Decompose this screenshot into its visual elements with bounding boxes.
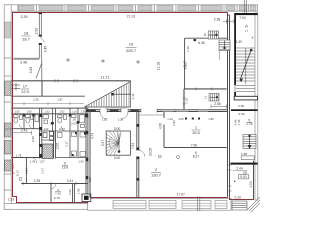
svg-text:6.36: 6.36 — [198, 41, 205, 45]
stairwell A bottom wall (black) — [234, 96, 257, 100]
svg-text:1.06: 1.06 — [68, 189, 72, 195]
cluster wall under toilets — [12, 128, 40, 130]
svg-text:6.17: 6.17 — [15, 170, 19, 176]
cluster right boundary wall (double) — [86, 108, 88, 197]
door blobs above room 1 — [185, 118, 200, 120]
svg-text:8: 8 — [204, 33, 206, 37]
hall divider wall x=137.5 — [137, 110, 139, 198]
wall below stairwell (black) — [231, 109, 258, 111]
svg-text:1.76: 1.76 — [246, 122, 253, 126]
room 6 label — [193, 151, 200, 159]
svg-text:3.04: 3.04 — [25, 168, 29, 174]
window marks on wall y=89 — [196, 88, 212, 91]
svg-text:1.60: 1.60 — [78, 159, 84, 163]
red outline room 20 — [230, 161, 254, 200]
arrow flight upper — [208, 34, 217, 36]
hall left wall x=90 — [89, 110, 91, 198]
svg-text:1.98: 1.98 — [241, 152, 247, 156]
top outer wall band — [6, 5, 258, 11]
window segments on hall top wall — [163, 110, 209, 112]
svg-text:21.91: 21.91 — [127, 14, 136, 18]
ramp triangle outline — [84, 82, 130, 108]
svg-text:2.38: 2.38 — [214, 18, 221, 22]
long interior wall y=81 — [12, 80, 131, 82]
svg-text:2.26: 2.26 — [118, 118, 124, 122]
landing box — [241, 156, 254, 160]
door gap on wall 18/19 — [39, 37, 42, 44]
pier verticals in bottom band — [198, 197, 200, 212]
svg-text:2.43: 2.43 — [21, 128, 28, 132]
svg-text:8.27: 8.27 — [193, 155, 200, 159]
svg-text:2.44: 2.44 — [236, 166, 242, 170]
circle symbol bottom of room 6 — [177, 156, 180, 159]
svg-text:7.50: 7.50 — [191, 143, 198, 147]
svg-text:2.56: 2.56 — [214, 102, 221, 106]
svg-text:4.30: 4.30 — [159, 123, 163, 129]
stairwell A treads — [236, 48, 255, 84]
svg-text:17.87: 17.87 — [176, 192, 185, 196]
dark wall chunks hall top wall — [86, 109, 139, 112]
ramp direction arrow — [112, 93, 132, 95]
arrow flight lower — [224, 41, 226, 50]
svg-text:1.82: 1.82 — [102, 118, 108, 122]
svg-text:1.57: 1.57 — [39, 159, 45, 163]
boxed 9.03 — [239, 175, 249, 179]
stairwell A top wall (black) — [235, 13, 258, 15]
cluster top wall — [12, 107, 88, 109]
right outer wall band — [255, 13, 258, 200]
svg-text:3.07: 3.07 — [71, 122, 77, 126]
svg-text:7.64: 7.64 — [131, 143, 135, 149]
column circles in room 19 — [67, 59, 139, 63]
svg-text:130.7: 130.7 — [151, 173, 162, 178]
top wall window segments — [18, 5, 256, 10]
shaft wall vertical x=39.5 lower — [40, 131, 42, 159]
svg-text:1.39: 1.39 — [236, 40, 242, 44]
svg-text:1.53: 1.53 — [8, 198, 14, 202]
svg-text:2.47: 2.47 — [59, 127, 65, 131]
dim line 2.44 — [233, 169, 247, 171]
window ticks room 20 left wall — [229, 165, 232, 191]
left wall hatched pocket low2 — [5, 141, 11, 155]
svg-text:1.36: 1.36 — [80, 109, 86, 113]
cluster second line — [12, 113, 88, 115]
svg-text:19.6: 19.6 — [62, 166, 69, 170]
flight near room 1 top — [209, 94, 219, 102]
junction ticks on y=183.5 wall — [23, 182, 76, 186]
svg-text:3.39: 3.39 — [21, 15, 28, 19]
dim line 2.43 — [13, 131, 32, 135]
svg-text:0.93: 0.93 — [172, 120, 176, 126]
black chunks on right boundary wall — [86, 114, 89, 179]
room 18 bottom wall — [14, 57, 40, 59]
winder arrow — [118, 134, 120, 153]
svg-text:4.53: 4.53 — [249, 181, 253, 187]
svg-text:9.03: 9.03 — [240, 175, 246, 179]
svg-text:3.41: 3.41 — [67, 179, 74, 183]
left wall window segment top — [5, 22, 11, 38]
tiny dims above — [30, 159, 84, 163]
svg-text:2.05: 2.05 — [56, 143, 60, 149]
svg-text:19: 19 — [129, 42, 134, 47]
room 6 label 19.6 — [62, 161, 69, 169]
dim line for 2.38 — [223, 19, 236, 24]
room 2 label — [151, 167, 162, 178]
room 17 right wall — [41, 81, 43, 96]
wall above room 20 (black) — [231, 163, 258, 165]
mid flight treads — [243, 135, 256, 149]
small flight lower (red zone) — [219, 40, 230, 51]
second line room2 side — [139, 114, 164, 116]
svg-text:11.18: 11.18 — [157, 62, 161, 70]
small flight upper (red zone) — [208, 31, 218, 39]
svg-text:1.87: 1.87 — [57, 98, 63, 102]
door arc room 3 — [51, 184, 56, 189]
door leaf line — [40, 37, 44, 43]
svg-text:3.17: 3.17 — [41, 168, 45, 174]
svg-text:♥: ♥ — [234, 180, 236, 184]
svg-text:1.00: 1.00 — [26, 109, 32, 113]
svg-text:1.95: 1.95 — [77, 188, 81, 194]
door swing room 18 — [36, 63, 42, 79]
room 1 bottom wall — [164, 147, 227, 149]
circle symbol room 8 — [19, 178, 22, 181]
wall between rooms 18 and 19 — [14, 12, 42, 81]
svg-text:2.90: 2.90 — [238, 112, 244, 116]
corridor small dims — [33, 98, 63, 102]
door arc divider wall — [139, 151, 145, 157]
wall y=183.5 across cluster bottom — [21, 183, 88, 185]
svg-text:3.17: 3.17 — [65, 141, 69, 147]
svg-text:17: 17 — [23, 84, 28, 89]
room 3 label — [54, 188, 61, 200]
svg-text:↓↑: ↓↑ — [245, 28, 249, 33]
room 19 lower-right interior wall vertical — [183, 89, 185, 111]
wall x=72.5 lower — [73, 184, 75, 203]
svg-text:1.05: 1.05 — [30, 159, 36, 163]
dim 2.56 line — [211, 104, 227, 108]
wall x=51 lower — [50, 184, 52, 203]
red boundary right (double) — [227, 13, 229, 198]
chimney ticks above stair block — [244, 0, 246, 13]
black chunks on shaft wall — [39, 114, 42, 158]
winder fan rays — [106, 131, 121, 155]
left wall hatched pocket mid — [5, 81, 11, 96]
svg-text:18: 18 — [24, 31, 29, 36]
left wall hatched pocket low1 — [5, 123, 11, 137]
mid flight arrow — [248, 135, 251, 148]
hall top wall — [86, 110, 228, 112]
left wall hatched pocket low3 — [5, 160, 11, 171]
svg-text:4.59: 4.59 — [88, 177, 92, 183]
svg-text:2.36: 2.36 — [33, 98, 39, 102]
short wall below flight lower — [218, 51, 220, 61]
room 1 label — [192, 126, 199, 136]
exterior steps diagonals — [247, 197, 260, 212]
door marks on wall x=184 — [183, 98, 186, 104]
door blob on wall y=38 — [194, 39, 197, 41]
svg-text:1.10: 1.10 — [185, 98, 189, 104]
upper-right room wall vertical x=184.6 — [184, 38, 186, 89]
cluster wall horizontal y=155 — [12, 157, 42, 159]
svg-text:4.05: 4.05 — [178, 117, 184, 121]
svg-text:3.65: 3.65 — [29, 67, 33, 74]
door gap on room1 left wall — [163, 118, 165, 125]
svg-text:20: 20 — [243, 171, 247, 175]
svg-text:7.94: 7.94 — [239, 16, 245, 20]
toilet fixtures row1 — [14, 115, 85, 128]
door gaps hall top wall — [100, 109, 157, 112]
circle symbol hall — [158, 155, 161, 158]
room 1 left wall — [163, 112, 165, 148]
door arc on y=155 wall — [31, 158, 37, 164]
svg-text:2.97: 2.97 — [101, 140, 105, 146]
svg-text:6.76: 6.76 — [54, 196, 60, 200]
room 17 bottom wall — [12, 95, 85, 97]
upper-right room wall horizontal y=38 — [185, 37, 227, 39]
svg-text:3.00: 3.00 — [114, 127, 121, 131]
bottom outer wall band centre/right part — [88, 199, 231, 211]
svg-text:2.42: 2.42 — [131, 93, 135, 99]
red boundary top + left — [13, 13, 254, 203]
wall x=26.4 rooms 8/9 — [25, 158, 27, 184]
room 16 label — [71, 118, 77, 126]
bottom wall window boxes centre — [113, 201, 227, 209]
svg-text:3.00: 3.00 — [114, 156, 121, 160]
stairwell A landing hatch — [236, 86, 255, 92]
left wall tick lines — [4, 58, 11, 190]
svg-text:4.17: 4.17 — [11, 163, 15, 169]
mid band right rooms walls — [56, 131, 88, 158]
label room 18 — [22, 31, 31, 42]
room 19 lower-right interior wall horizontal — [184, 88, 227, 90]
junction tick at top of wall 18/19 — [39, 13, 42, 15]
black wall chunks on divider — [136, 124, 139, 181]
bottom wall window sashes — [113, 203, 227, 206]
exterior steps below room 20 — [232, 201, 247, 210]
label room 19 — [126, 42, 137, 54]
winder stair square — [106, 131, 130, 155]
label room 17 — [21, 84, 30, 95]
mid band fixtures — [58, 132, 86, 157]
corridor dim line — [13, 102, 84, 106]
cluster wall mid right — [40, 130, 88, 132]
stairwell A left wall (black) — [234, 13, 236, 98]
svg-text:3.45: 3.45 — [44, 46, 48, 53]
door jambs on wall y=81 — [55, 79, 77, 82]
landing hatch band under ramp — [106, 107, 126, 109]
room 8 label 6.17 rotated — [12, 170, 20, 176]
top wall segment dividers — [18, 5, 249, 11]
cluster small texts row1 — [14, 109, 86, 113]
svg-text:203.7: 203.7 — [126, 48, 137, 53]
svg-text:10.28: 10.28 — [149, 148, 153, 156]
door arcs below hall top wall — [100, 112, 128, 119]
svg-text:1.02: 1.02 — [44, 128, 49, 131]
svg-text:1.92: 1.92 — [59, 109, 65, 113]
wall below room 18 continuing to corridor wall — [41, 59, 43, 81]
stairwell A left wall door gap — [234, 85, 235, 92]
svg-text:1.10: 1.10 — [71, 109, 77, 113]
door arcs row1 — [20, 124, 67, 131]
red boundary bottom-left jog — [13, 197, 228, 203]
svg-text:1.52: 1.52 — [44, 109, 50, 113]
svg-text:1.2: 1.2 — [204, 95, 208, 99]
small dims below hall wall — [102, 117, 214, 122]
svg-text:1.78: 1.78 — [16, 154, 22, 158]
room 5 label — [246, 119, 253, 127]
double door marks room 17 left — [12, 83, 20, 91]
svg-text:4.74: 4.74 — [91, 133, 95, 139]
cluster cell dividers row1 — [24, 108, 78, 131]
svg-text:1.05: 1.05 — [14, 109, 20, 113]
arrow flight near room 1 — [210, 96, 218, 98]
svg-text:3.48: 3.48 — [20, 61, 27, 65]
door jamb blobs — [39, 35, 42, 45]
pier block bottom — [82, 194, 91, 202]
svg-text:2.39: 2.39 — [34, 179, 41, 183]
svg-text:1: 1 — [195, 126, 197, 130]
svg-text:26.5: 26.5 — [192, 131, 199, 135]
ramp hatch lines — [87, 82, 130, 107]
small room right of shaft — [42, 131, 54, 141]
svg-text:3.36: 3.36 — [31, 136, 35, 142]
svg-text:11.21: 11.21 — [101, 75, 110, 79]
svg-text:7.46: 7.46 — [237, 119, 241, 125]
svg-text:2.52: 2.52 — [35, 28, 39, 35]
shaft dark hatch block — [43, 144, 54, 159]
svg-text:18.7: 18.7 — [22, 37, 31, 42]
bottom outer wall band left part — [4, 204, 88, 210]
svg-text:2.33: 2.33 — [234, 195, 240, 199]
svg-text:1.86: 1.86 — [208, 117, 214, 121]
svg-text:12.9: 12.9 — [21, 89, 30, 94]
dark fixture chunks row1 — [23, 114, 88, 125]
left outer wall band — [4, 5, 11, 210]
svg-text:2.38: 2.38 — [238, 104, 244, 108]
stairwell A arrow diagonal — [240, 49, 252, 81]
mid cluster vertical wall x=54 — [54, 131, 56, 159]
svg-text:1.10: 1.10 — [186, 46, 190, 52]
jamb ticks — [100, 109, 157, 113]
